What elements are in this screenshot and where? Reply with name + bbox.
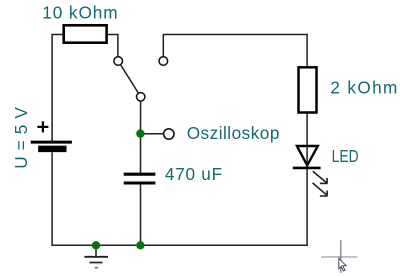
svg-text:U = 5 V: U = 5 V bbox=[11, 107, 31, 169]
svg-text:LED: LED bbox=[332, 146, 359, 166]
svg-text:10 kOhm: 10 kOhm bbox=[42, 3, 117, 23]
svg-text:470 uF: 470 uF bbox=[165, 164, 222, 184]
svg-text:2 kOhm: 2 kOhm bbox=[330, 78, 397, 98]
svg-text:Oszilloskop: Oszilloskop bbox=[187, 123, 280, 143]
